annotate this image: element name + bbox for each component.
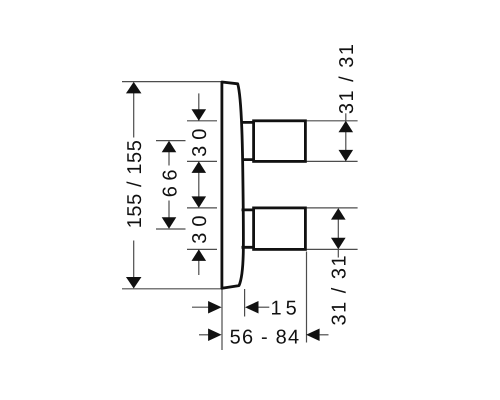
svg-text:31 / 31: 31 / 31 xyxy=(336,42,358,114)
svg-text:56 - 84: 56 - 84 xyxy=(230,326,301,348)
svg-text:31 / 31: 31 / 31 xyxy=(329,254,351,326)
svg-text:30: 30 xyxy=(189,123,211,157)
svg-text:155 / 155: 155 / 155 xyxy=(124,139,146,228)
svg-text:30: 30 xyxy=(189,209,211,243)
svg-text:15: 15 xyxy=(271,298,301,320)
svg-text:66: 66 xyxy=(159,164,181,197)
